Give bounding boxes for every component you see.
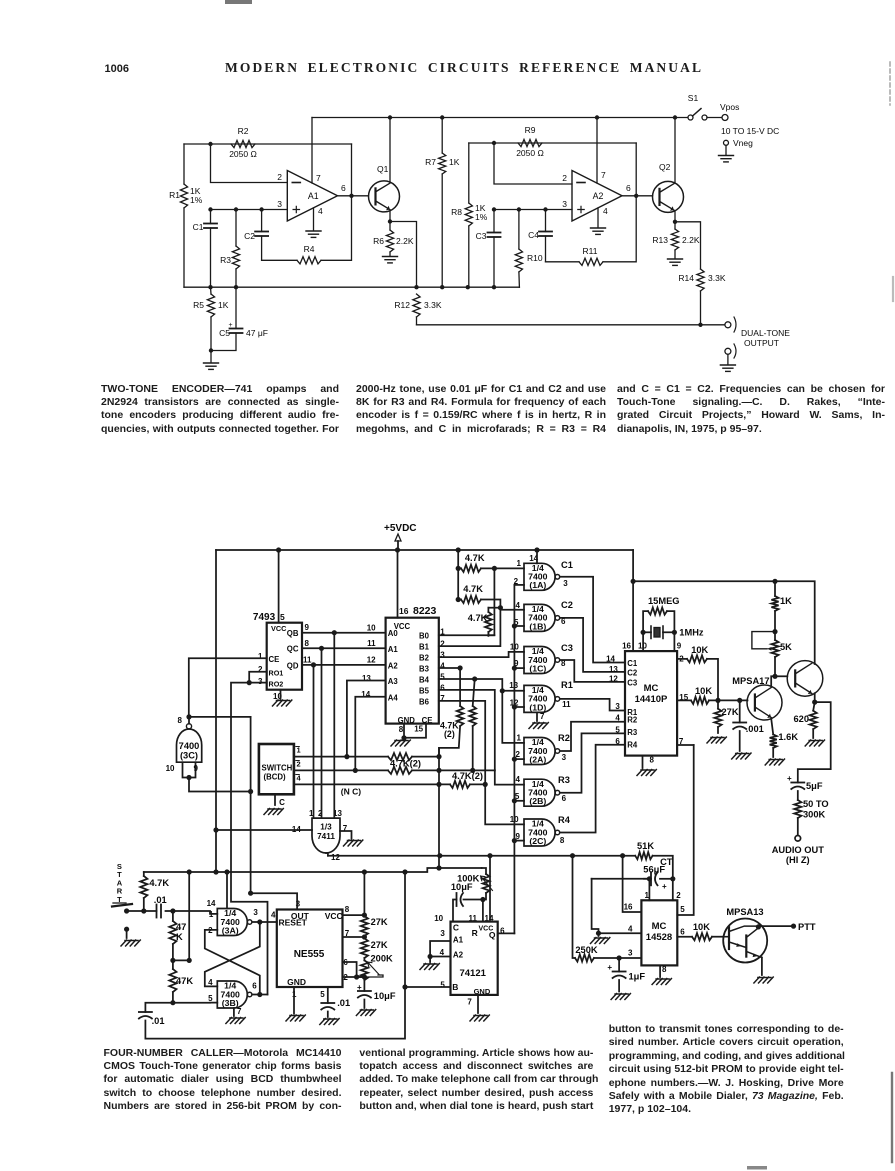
svg-text:(HI Z): (HI Z)	[786, 855, 810, 865]
svg-text:6: 6	[562, 794, 567, 803]
svg-text:14: 14	[361, 690, 370, 699]
svg-text:7: 7	[467, 998, 472, 1007]
svg-text:4: 4	[603, 206, 608, 216]
svg-text:8: 8	[560, 836, 565, 845]
wire B5 line	[439, 690, 495, 771]
wire bottom return	[145, 872, 405, 1039]
wire MPSA17 collector	[771, 676, 775, 686]
svg-text:6: 6	[680, 928, 685, 937]
svg-text:(BCD): (BCD)	[264, 773, 286, 782]
wire B3 line	[439, 667, 460, 669]
svg-text:200K: 200K	[371, 954, 394, 964]
wire 3B out to RO2 line	[253, 994, 268, 996]
wire QD to A2	[302, 664, 386, 666]
svg-text:MPSA13: MPSA13	[726, 907, 763, 917]
svg-text:9: 9	[305, 623, 310, 632]
svg-text:.01: .01	[337, 998, 350, 1008]
svg-text:(1B): (1B)	[529, 621, 546, 631]
resistor R7 1K	[441, 118, 443, 154]
ground 7411	[344, 840, 363, 846]
capacitor .01 pin5	[327, 987, 329, 1003]
svg-text:620: 620	[793, 714, 809, 724]
svg-text:R10: R10	[527, 253, 543, 263]
wire 1D pin7 ground	[536, 712, 538, 721]
svg-text:300K: 300K	[803, 810, 826, 820]
scan smudge top	[225, 0, 252, 4]
svg-text:C: C	[279, 798, 285, 807]
ground R13	[668, 259, 683, 265]
svg-text:S1: S1	[688, 93, 699, 103]
wire output collector	[814, 663, 816, 665]
svg-text:NE555: NE555	[294, 949, 325, 960]
wire CT cap	[650, 872, 652, 885]
svg-text:5: 5	[615, 726, 620, 735]
svg-text:1K: 1K	[449, 157, 460, 167]
wire A2 pin2	[494, 143, 572, 184]
svg-text:(2A): (2A)	[529, 754, 546, 764]
scan mark right bottom	[891, 1073, 893, 1162]
svg-text:27K: 27K	[722, 707, 739, 717]
svg-text:C3: C3	[561, 643, 573, 653]
resistor R4 loop	[262, 259, 297, 261]
svg-text:7: 7	[540, 712, 545, 721]
svg-text:5: 5	[320, 990, 325, 999]
svg-text:B2: B2	[419, 654, 430, 663]
ground 1uF	[611, 994, 630, 1000]
svg-text:1: 1	[258, 652, 263, 661]
svg-text:R1: R1	[561, 680, 573, 690]
svg-text:R11: R11	[583, 246, 598, 256]
svg-text:+: +	[229, 322, 233, 329]
resistor 4.7K no2	[457, 568, 459, 599]
svg-text:DUAL-TONE: DUAL-TONE	[741, 328, 790, 338]
ground .001	[732, 753, 751, 759]
svg-text:2050 Ω: 2050 Ω	[516, 148, 544, 158]
wire 14528 pin1	[648, 879, 650, 901]
svg-text:(2): (2)	[444, 729, 455, 739]
svg-text:K: K	[176, 932, 183, 942]
svg-text:3: 3	[277, 199, 282, 209]
IC MC14410	[625, 651, 677, 756]
switch start	[124, 908, 129, 913]
wire A2 pin7	[596, 118, 598, 184]
svg-text:A3: A3	[388, 677, 399, 686]
resistor 51K	[635, 852, 652, 859]
svg-text:7: 7	[237, 1007, 242, 1016]
svg-text:6: 6	[440, 683, 445, 692]
wire 1D out to R1	[561, 699, 625, 711]
svg-text:B1: B1	[419, 643, 430, 652]
ground 555	[286, 1015, 305, 1021]
wire MC pin2 10K	[677, 658, 687, 660]
potentiometer 200K	[361, 960, 368, 980]
svg-text:47K: 47K	[176, 976, 193, 986]
wire B0 pullup	[439, 568, 495, 635]
wire +5 rail right segment	[633, 550, 815, 664]
wire 2C out to R4	[561, 745, 625, 833]
svg-text:250K: 250K	[575, 945, 598, 955]
wire R line to pin4 node	[592, 878, 647, 880]
svg-text:15: 15	[414, 724, 423, 733]
svg-text:4: 4	[440, 661, 445, 670]
svg-text:R4: R4	[304, 244, 315, 254]
svg-text:7: 7	[316, 173, 321, 183]
ground 14528 pin4	[591, 938, 610, 944]
resistor R12 3.3K	[413, 294, 420, 317]
wire 74121 gnd	[477, 995, 479, 1013]
svg-text:1K: 1K	[780, 596, 792, 606]
svg-text:2: 2	[440, 640, 445, 649]
wire 8223 pin16 vcc	[397, 550, 399, 618]
svg-text:7493: 7493	[253, 612, 276, 623]
wire 3A pin1	[166, 911, 218, 914]
wire 5K wiper loop	[752, 632, 775, 649]
capacitor 10uF 555	[363, 977, 365, 991]
svg-text:8: 8	[662, 965, 667, 974]
svg-text:8: 8	[345, 905, 350, 914]
resistor R3	[235, 210, 237, 247]
terminal Vpos	[722, 115, 728, 121]
svg-text:7411: 7411	[317, 832, 335, 841]
svg-text:4.7K(2): 4.7K(2)	[452, 771, 483, 781]
ground 14528	[652, 979, 671, 985]
svg-text:(1A): (1A)	[529, 580, 546, 590]
svg-text:R4: R4	[627, 741, 638, 750]
svg-text:C5: C5	[219, 328, 230, 338]
wire 2B out to R3	[561, 733, 625, 792]
svg-text:C3: C3	[476, 231, 487, 241]
IC MC14528	[641, 900, 677, 965]
wire 1C out to C3	[561, 660, 625, 682]
svg-text:A4: A4	[388, 693, 399, 702]
svg-text:GND: GND	[474, 987, 491, 996]
svg-text:6: 6	[626, 183, 631, 193]
svg-text:A1: A1	[453, 936, 464, 945]
resistor R2 2050	[231, 140, 255, 147]
svg-text:56μF: 56μF	[643, 865, 665, 875]
ground 620	[805, 740, 824, 746]
transistor MPSA13 darlington	[723, 919, 767, 963]
wire dual-tone output line	[417, 324, 725, 326]
svg-text:3: 3	[440, 650, 445, 659]
ground start	[121, 940, 140, 946]
wire 7493 pin5 vcc	[278, 550, 280, 623]
wire A1 pin4 ground	[313, 208, 315, 230]
wire BCD out4	[294, 783, 450, 785]
wire output emitter node	[814, 693, 816, 702]
wire 3C inputs	[183, 762, 196, 777]
wire 3B pin7 ground	[233, 1008, 235, 1016]
resistor R10	[518, 210, 520, 250]
svg-text:C2: C2	[244, 231, 255, 241]
svg-text:1: 1	[517, 559, 522, 568]
svg-text:74121: 74121	[459, 968, 486, 979]
wire 3A output	[257, 919, 262, 924]
ground A2	[591, 228, 606, 234]
svg-text:AUDIO OUT: AUDIO OUT	[772, 845, 824, 855]
wire B6 line	[439, 701, 485, 785]
svg-text:R7: R7	[425, 157, 436, 167]
svg-text:VCC: VCC	[325, 911, 343, 921]
resistor 4.7K(2) C line	[450, 781, 470, 788]
wire 1B pin4 feed	[500, 608, 524, 610]
svg-text:4.7K: 4.7K	[465, 553, 485, 563]
wire audio branch	[798, 702, 831, 782]
ground MPSA13	[754, 977, 773, 983]
svg-text:R6: R6	[373, 236, 384, 246]
ground R6	[383, 257, 398, 263]
wire 3C output	[189, 717, 251, 724]
wire left +5 bus	[215, 550, 217, 872]
wire MC14410 pin7	[677, 744, 694, 746]
svg-text:C2: C2	[561, 600, 573, 610]
wire R9 feedback	[469, 142, 636, 144]
svg-text:27K: 27K	[371, 917, 388, 927]
terminal audio out	[795, 836, 801, 842]
wire MC pin8 ground	[642, 756, 644, 768]
wire 14528 pin8 ground	[659, 965, 661, 977]
transistor Q1	[369, 181, 400, 212]
svg-text:51K: 51K	[637, 841, 654, 851]
svg-text:1%: 1%	[475, 212, 488, 222]
capacitor C1	[210, 210, 212, 224]
IC 74121	[451, 922, 498, 995]
svg-text:8: 8	[399, 725, 404, 734]
svg-text:8223: 8223	[413, 605, 437, 617]
svg-text:C1: C1	[193, 222, 204, 232]
svg-text:7: 7	[601, 170, 606, 180]
svg-text:9: 9	[677, 642, 682, 651]
svg-text:OUTPUT: OUTPUT	[744, 338, 779, 348]
svg-text:1K: 1K	[218, 300, 229, 310]
resistor R1 1K	[183, 144, 185, 184]
svg-text:6: 6	[615, 737, 620, 746]
resistor 620	[813, 702, 815, 711]
wire QC to A1	[302, 647, 386, 649]
resistor 27K b	[363, 936, 365, 938]
ground 74121	[470, 1015, 489, 1021]
wire 7411 pin13	[333, 633, 335, 818]
capacitor .01 bottom	[145, 1003, 173, 1012]
ground Vneg	[719, 156, 734, 162]
svg-text:10μF: 10μF	[451, 882, 473, 892]
scan mark right top	[889, 62, 891, 105]
resistor 4.7K pair a	[459, 668, 461, 706]
svg-text:Vpos: Vpos	[720, 102, 739, 112]
svg-text:R14: R14	[678, 273, 694, 283]
crystal 1MHz	[643, 631, 651, 633]
svg-text:SWITCH: SWITCH	[262, 764, 293, 773]
wire A4 stair	[355, 697, 385, 771]
wire 74121 vcc pin14	[489, 856, 491, 922]
svg-text:(1D): (1D)	[529, 702, 546, 712]
wire RO1 tie	[249, 672, 267, 683]
resistor R13 2.2K	[671, 229, 678, 250]
transistor output darlington	[787, 661, 823, 697]
gate 7400 2C	[524, 819, 555, 846]
IC 8223 PROM	[386, 618, 439, 724]
svg-text:5μF: 5μF	[806, 781, 823, 791]
svg-text:QB: QB	[287, 629, 299, 638]
wire 47K mid to trunk	[173, 872, 189, 960]
ground 74121 A	[420, 964, 439, 970]
gate 7400 1C	[524, 647, 555, 674]
resistor 4.7K no3	[485, 612, 492, 632]
svg-text:1.6K: 1.6K	[778, 732, 798, 742]
svg-text:3: 3	[562, 753, 567, 762]
wire 14528 pin6 10K	[677, 936, 692, 938]
gate 7400 3B	[217, 981, 247, 1008]
svg-text:5: 5	[440, 981, 445, 990]
wire R2 feedback	[184, 143, 352, 145]
svg-text:A2: A2	[453, 951, 464, 960]
svg-text:14: 14	[207, 899, 216, 908]
resistor R5 1K	[207, 294, 214, 317]
wire A2 output	[622, 195, 653, 197]
svg-text:QC: QC	[287, 645, 299, 654]
svg-text:14410P: 14410P	[635, 694, 668, 705]
ground A1	[306, 231, 321, 237]
ground 8223	[391, 740, 410, 746]
svg-text:10K: 10K	[693, 922, 710, 932]
resistor 47K a	[172, 911, 174, 921]
wire 7411 pin14	[216, 829, 312, 831]
svg-text:A1: A1	[388, 645, 399, 654]
resistor 27K a	[363, 872, 365, 916]
svg-text:10 TO 15-V DC: 10 TO 15-V DC	[721, 126, 779, 136]
wire 14528 pin16	[623, 856, 642, 912]
terminal dual-tone output bottom	[725, 348, 731, 354]
wire 2B pin4 feed	[495, 770, 524, 784]
wire 555 pin7	[343, 936, 365, 938]
svg-text:C1: C1	[627, 659, 638, 668]
op-amp A1	[287, 171, 337, 222]
resistor 47K b	[169, 969, 176, 992]
svg-text:6: 6	[341, 183, 346, 193]
svg-text:6: 6	[252, 982, 257, 991]
svg-text:14: 14	[606, 655, 615, 664]
svg-text:(2B): (2B)	[529, 796, 546, 806]
wire 7411 pin2	[321, 648, 323, 818]
terminal dual-tone output top	[725, 322, 731, 328]
capacitor C4	[545, 210, 547, 232]
wire 74121 Q	[498, 932, 515, 934]
svg-text:4: 4	[318, 206, 323, 216]
svg-text:R2: R2	[238, 126, 249, 136]
svg-text:MC: MC	[652, 921, 667, 932]
resistor 4.7K start	[127, 910, 144, 912]
svg-text:+: +	[662, 882, 667, 891]
svg-text:1: 1	[645, 891, 650, 900]
capacitor .001	[739, 700, 741, 722]
svg-text:CE: CE	[422, 716, 433, 725]
svg-text:2050 Ω: 2050 Ω	[229, 149, 257, 159]
wire 7493 pin10 ground	[280, 690, 282, 699]
svg-text:2: 2	[676, 891, 681, 900]
ground 7493	[273, 700, 292, 706]
svg-text:.01: .01	[154, 895, 167, 905]
svg-text:R9: R9	[525, 125, 536, 135]
svg-text:C4: C4	[528, 230, 539, 240]
svg-text:GND: GND	[287, 977, 306, 987]
svg-text:Q1: Q1	[377, 164, 389, 174]
wire B1 pullup	[439, 608, 501, 646]
svg-text:.001: .001	[746, 724, 764, 734]
svg-text:11: 11	[303, 656, 312, 665]
svg-text:12: 12	[367, 656, 376, 665]
wire 1D pin13 feed	[502, 690, 524, 692]
svg-text:5: 5	[280, 612, 285, 622]
svg-text:7400: 7400	[179, 741, 200, 751]
svg-text:10: 10	[166, 764, 175, 773]
svg-text:C3: C3	[627, 678, 638, 687]
svg-text:+: +	[357, 983, 362, 992]
wire Q1 emitter node	[389, 211, 391, 222]
resistor 50-300K	[794, 800, 801, 818]
svg-text:R3: R3	[558, 775, 570, 785]
wire Q2 emitter node	[674, 212, 676, 222]
svg-text:A0: A0	[388, 629, 399, 638]
svg-text:B4: B4	[419, 676, 430, 685]
svg-text:50 TO: 50 TO	[803, 799, 829, 809]
svg-text:+: +	[787, 774, 792, 783]
wire A1 pin7 to rail	[311, 118, 313, 184]
svg-text:R2: R2	[558, 733, 570, 743]
svg-text:B5: B5	[419, 686, 430, 695]
wire 7411 pin1	[313, 665, 315, 818]
potentiometer 5K	[771, 640, 778, 657]
svg-text:RO2: RO2	[269, 680, 284, 689]
svg-text:4: 4	[615, 713, 620, 722]
wire MC pin15 10K	[677, 699, 691, 701]
svg-text:5: 5	[440, 672, 445, 681]
svg-text:QD: QD	[287, 662, 299, 671]
wire 14528 pin2	[672, 879, 674, 901]
svg-text:14528: 14528	[646, 932, 672, 943]
wire mid rail	[184, 286, 519, 288]
svg-text:Q2: Q2	[659, 162, 671, 172]
svg-text:9: 9	[194, 764, 199, 773]
wire ABC bus	[438, 748, 440, 856]
gate 7400 3C	[177, 729, 202, 762]
svg-text:27K: 27K	[371, 940, 388, 950]
ground 3B	[226, 1018, 245, 1024]
svg-text:12: 12	[609, 675, 618, 684]
wire A1 output	[338, 195, 369, 197]
wire Q2 collector	[674, 118, 676, 183]
wire A2 pin3	[494, 209, 572, 211]
capacitor 1uF	[618, 958, 620, 972]
wire 74121 A1 A2 ground	[430, 941, 450, 957]
wire 8223 gnd ce tie	[403, 724, 405, 738]
gate 7400 2B	[524, 779, 555, 806]
wire A1 pin3	[211, 209, 288, 211]
svg-text:R4: R4	[558, 815, 571, 825]
crystal circuit 15MEG	[643, 611, 648, 651]
svg-text:4: 4	[516, 775, 521, 784]
wire bus taps	[514, 584, 524, 586]
svg-text:(3C): (3C)	[180, 751, 198, 761]
wire 14528 pin3 250K	[619, 957, 641, 959]
svg-text:R3: R3	[220, 255, 231, 265]
resistor R11 loop	[546, 261, 580, 263]
resistor 27K right	[717, 700, 719, 708]
svg-text:2: 2	[277, 172, 282, 182]
wire 555 gnd	[293, 987, 295, 1014]
svg-text:5: 5	[208, 994, 213, 1003]
svg-text:10K: 10K	[695, 686, 712, 696]
terminal Vneg	[724, 140, 729, 145]
